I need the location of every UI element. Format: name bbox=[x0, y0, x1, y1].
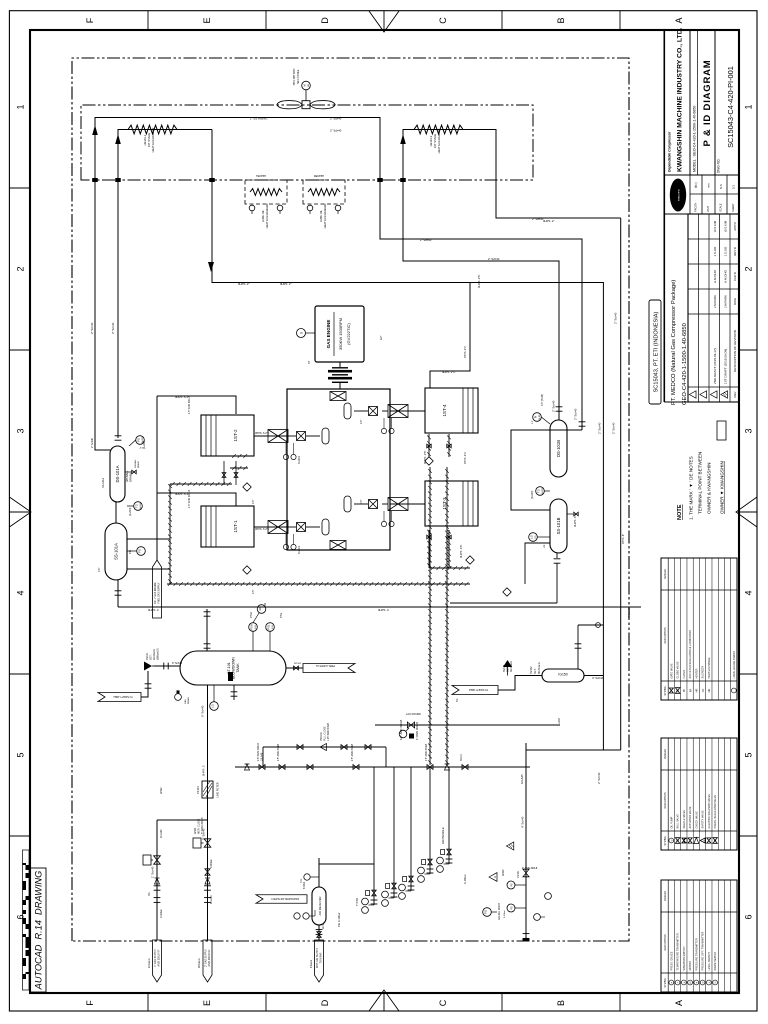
svg-text:OIL PUMP: OIL PUMP bbox=[670, 816, 673, 828]
svg-text:LG: LG bbox=[210, 704, 214, 707]
svg-text:1ST-2: 1ST-2 bbox=[233, 429, 238, 442]
svg-text:2" Sch40: 2" Sch40 bbox=[111, 322, 115, 334]
svg-text:0HPS .6"C: 0HPS .6"C bbox=[459, 545, 463, 558]
svg-text:0HPS .2"C: 0HPS .2"C bbox=[423, 451, 427, 464]
svg-text:(A-204): (A-204) bbox=[129, 507, 132, 516]
project id box bbox=[649, 300, 661, 404]
svg-text:M: M bbox=[690, 981, 692, 983]
cylinder 1ST-1 bbox=[201, 506, 254, 547]
svg-text:SS-101A: SS-101A bbox=[114, 543, 119, 560]
autocad stamp box bbox=[30, 868, 46, 992]
svg-text:2" Sch40: 2" Sch40 bbox=[91, 437, 94, 448]
svg-text:KWANGSHIN AIR SUPPLY: KWANGSHIN AIR SUPPLY bbox=[271, 897, 299, 900]
wire cyl drains top bbox=[223, 461, 225, 485]
svg-text:2.5" ANSI 300LB: 2.5" ANSI 300LB bbox=[351, 743, 354, 761]
svg-text:HE101-2: HE101-2 bbox=[429, 135, 433, 146]
wire bottle link bbox=[115, 502, 117, 523]
svg-text:HEAT EXCHANGE: HEAT EXCHANGE bbox=[708, 657, 711, 678]
cooler boundary dash-dot bbox=[81, 105, 533, 180]
svg-text:mm: mm bbox=[707, 183, 711, 188]
svg-text:A-204: A-204 bbox=[139, 502, 142, 509]
nozzle junction square bbox=[115, 178, 121, 182]
svg-text:0HPS .2"C: 0HPS .2"C bbox=[464, 346, 467, 358]
svg-text:PG: PG bbox=[136, 438, 140, 442]
svg-text:DRAIN: DRAIN bbox=[187, 697, 190, 704]
wire BT relief bbox=[154, 665, 180, 667]
flow arrow bbox=[92, 125, 98, 135]
svg-text:J.S.JIO: J.S.JIO bbox=[723, 246, 727, 256]
svg-text:0.5": 0.5" bbox=[252, 590, 255, 594]
wire psv bypass bbox=[263, 746, 386, 748]
svg-text:0.5": 0.5" bbox=[532, 420, 534, 424]
svg-text:0-60bar: 0-60bar bbox=[210, 859, 213, 868]
wire discharge A to cooler bbox=[95, 118, 582, 451]
DS-101A TG bbox=[134, 502, 143, 511]
svg-text:0-10bar: 0-10bar bbox=[503, 910, 506, 918]
crankcase oil pump end bbox=[330, 392, 346, 401]
svg-text:O: O bbox=[671, 839, 673, 841]
svg-text:DRAIN: DRAIN bbox=[129, 473, 133, 482]
suction bottle SS-101A bbox=[105, 523, 127, 580]
svg-text:SAFETY VALVE: SAFETY VALVE bbox=[702, 810, 705, 828]
wire valve line 299 bbox=[375, 724, 560, 726]
BT level bar bbox=[228, 672, 233, 681]
svg-text:0HPS .2": 0HPS .2" bbox=[238, 282, 249, 286]
svg-text:3: 3 bbox=[744, 428, 754, 433]
svg-text:(GV222TIC): (GV222TIC) bbox=[346, 323, 351, 345]
svg-text:4: 4 bbox=[16, 590, 26, 595]
relief valve PSV101 bbox=[320, 744, 326, 751]
spec break SSB bbox=[554, 562, 561, 564]
coupling bbox=[332, 382, 348, 383]
header flanges bbox=[154, 901, 161, 903]
svg-text:6" Sch40: 6" Sch40 bbox=[201, 705, 205, 717]
flow arrow4 bbox=[400, 134, 406, 144]
svg-text:10LA45: 10LA45 bbox=[261, 752, 264, 761]
wire BT vent bbox=[286, 667, 303, 669]
traced vertical main bbox=[167, 583, 470, 585]
svg-text:TO SAFETY AREA: TO SAFETY AREA bbox=[113, 695, 133, 698]
svg-text:AIR BUNDLE: AIR BUNDLE bbox=[441, 827, 445, 844]
svg-text:PG: PG bbox=[511, 906, 514, 910]
svg-text:10LA45: 10LA45 bbox=[520, 774, 524, 784]
diamond d5 bbox=[503, 588, 511, 596]
svg-text:0HPS .6": 0HPS .6" bbox=[622, 534, 625, 544]
svg-text:1: 1 bbox=[744, 104, 754, 109]
package boundary dash-dot bbox=[72, 58, 629, 941]
crosshead assembly cyl3 bbox=[390, 503, 425, 505]
BT bottom stub bbox=[233, 685, 235, 700]
SS-101B drain bbox=[567, 513, 573, 515]
svg-text:1ST STAGE: 1ST STAGE bbox=[147, 133, 151, 148]
svg-text:HEAT EXCHANGER: HEAT EXCHANGER bbox=[265, 204, 269, 229]
psv bypass ladder bbox=[259, 765, 265, 770]
svg-text:PT. MEDCO (Natural Gas Compres: PT. MEDCO (Natural Gas Compressor Packag… bbox=[671, 280, 677, 405]
relief valve SV102 bbox=[503, 660, 512, 667]
svg-text:LG: LG bbox=[529, 535, 533, 538]
traced stub c1 bbox=[230, 467, 248, 469]
air receiver to regulators bbox=[318, 864, 320, 887]
svg-text:SI: SI bbox=[300, 331, 304, 334]
flow arrow2 bbox=[115, 134, 121, 144]
svg-text:UNIT: UNIT bbox=[706, 206, 710, 212]
heat exchanger HE101-1 bbox=[128, 125, 177, 134]
svg-text:ROOM HEATER: ROOM HEATER bbox=[714, 952, 717, 971]
svg-text:33: 33 bbox=[263, 602, 267, 606]
svg-text:BALL VALVE: BALL VALVE bbox=[677, 814, 680, 829]
svg-text:FR. 1" GAS ENGINE: FR. 1" GAS ENGINE bbox=[154, 582, 157, 604]
svg-text:1" SS RISING: 1" SS RISING bbox=[250, 117, 267, 121]
svg-text:PG: PG bbox=[128, 550, 132, 554]
centering mark top bbox=[9, 497, 31, 527]
revision table bbox=[688, 214, 739, 402]
wire air receiver out bbox=[318, 858, 320, 887]
wire fuel supply bbox=[207, 685, 209, 940]
svg-text:W102: W102 bbox=[502, 869, 505, 876]
svg-text:TO SAFETY AREA: TO SAFETY AREA bbox=[316, 665, 336, 668]
svg-text:J.M.PARK: J.M.PARK bbox=[713, 295, 717, 308]
svg-text:0HPS 2": 0HPS 2" bbox=[280, 282, 291, 286]
projection and scale cells bbox=[689, 175, 691, 214]
flow arrow3 bbox=[208, 262, 214, 272]
svg-text:PRESS. REGULATOR VALVE: PRESS. REGULATOR VALVE bbox=[714, 795, 717, 829]
traced suction header bbox=[169, 484, 171, 584]
svg-text:PS: PS bbox=[511, 883, 514, 887]
svg-text:6" Sch40: 6" Sch40 bbox=[172, 662, 183, 665]
graphic scale ruler bbox=[23, 850, 30, 990]
svg-text:LG: LG bbox=[543, 545, 546, 548]
svg-text:DS-101B: DS-101B bbox=[556, 440, 561, 457]
svg-text:A: A bbox=[493, 876, 497, 878]
wire SS-101B vent bbox=[525, 543, 550, 584]
svg-text:PG 0-10bar: PG 0-10bar bbox=[337, 912, 341, 927]
svg-text:10LA40: 10LA40 bbox=[160, 829, 163, 838]
svg-text:W102: W102 bbox=[160, 787, 163, 794]
svg-text:F: F bbox=[85, 1000, 95, 1006]
svg-text:HEAT EXCHANGER: HEAT EXCHANGER bbox=[151, 128, 155, 153]
svg-text:5" Sch40: 5" Sch40 bbox=[202, 828, 206, 840]
svg-text:HR: HR bbox=[695, 689, 699, 693]
valve on suction header bbox=[154, 856, 161, 864]
lube oil heat exchanger HE105A bbox=[245, 180, 287, 204]
svg-text:5: 5 bbox=[744, 752, 754, 757]
air filter regulator bbox=[304, 874, 310, 880]
svg-text:MOTOR: MOTOR bbox=[689, 961, 692, 970]
legend table valves bbox=[661, 738, 737, 850]
wire psv main bbox=[235, 766, 530, 768]
svg-text:DWG NO.: DWG NO. bbox=[717, 159, 721, 173]
spec break bbox=[556, 410, 563, 412]
svg-text:36.3 bar.G: 36.3 bar.G bbox=[510, 661, 513, 672]
crosshead assembly cyl4 bbox=[390, 410, 425, 412]
discharge bottle DS-101B bbox=[550, 420, 567, 477]
svg-text:3: 3 bbox=[16, 428, 26, 433]
svg-text:NEEDLE VALVE: NEEDLE VALVE bbox=[683, 810, 686, 829]
gas engine bbox=[315, 306, 364, 362]
svg-text:B-2001: B-2001 bbox=[298, 455, 301, 464]
svg-text:4" ANSI 300LB: 4" ANSI 300LB bbox=[522, 867, 538, 870]
svg-text:LA/O: LA/O bbox=[558, 718, 561, 724]
spec break dsb2 bbox=[579, 425, 586, 427]
svg-text:H.M.OHO: H.M.OHO bbox=[723, 269, 727, 282]
traced cyl3 drops bbox=[428, 530, 430, 568]
svg-text:2" Sch40: 2" Sch40 bbox=[330, 129, 342, 133]
svg-text:DESCRIPTION: DESCRIPTION bbox=[664, 934, 667, 951]
svg-text:B-203: B-203 bbox=[542, 487, 544, 494]
svg-text:TEMPERATURE TRANSMITTER: TEMPERATURE TRANSMITTER bbox=[677, 933, 680, 970]
SS-101B LG bbox=[529, 533, 538, 542]
BT drain inst bbox=[210, 702, 219, 711]
svg-text:CHK'D: CHK'D bbox=[733, 272, 737, 281]
svg-text:F: F bbox=[85, 17, 95, 23]
svg-text:1" Sch40: 1" Sch40 bbox=[151, 866, 155, 878]
wire fuel tee bbox=[430, 283, 470, 389]
svg-text:1.5" AND 300LB: 1.5" AND 300LB bbox=[188, 490, 191, 508]
svg-text:REMARK: REMARK bbox=[664, 748, 667, 759]
svg-text:AIR FILTER REGULATOR & LUBRICA: AIR FILTER REGULATOR & LUBRICATOR bbox=[689, 630, 692, 678]
svg-text:PG: PG bbox=[483, 910, 487, 914]
svg-text:TO 8 BAR: TO 8 BAR bbox=[319, 952, 322, 963]
svg-text:DRAIN: DRAIN bbox=[137, 461, 140, 468]
svg-text:PSH: PSH bbox=[249, 612, 253, 618]
warning triangle B bbox=[506, 842, 513, 850]
svg-text:J.M.PARK: J.M.PARK bbox=[723, 295, 727, 308]
diamond d2 bbox=[243, 566, 251, 574]
psv rungs bbox=[262, 747, 264, 767]
svg-text:ANSI 300LB RF: ANSI 300LB RF bbox=[157, 949, 160, 967]
svg-text:HE105B: HE105B bbox=[314, 174, 324, 178]
diamond d4 bbox=[466, 556, 474, 564]
DS-101B PG bbox=[533, 413, 542, 422]
svg-text:ST: ST bbox=[308, 360, 311, 364]
svg-text:LA/O ROUND: LA/O ROUND bbox=[406, 713, 421, 716]
wire silencer relief bbox=[498, 676, 542, 691]
svg-text:(A-203): (A-203) bbox=[143, 440, 146, 449]
svg-text:WP102: WP102 bbox=[294, 663, 302, 665]
svg-text:2" Sch40: 2" Sch40 bbox=[574, 408, 578, 420]
svg-text:1: 1 bbox=[16, 104, 26, 109]
wire SSB left bbox=[450, 602, 557, 604]
svg-text:0-10bar: 0-10bar bbox=[463, 874, 467, 884]
safety flag silencer bbox=[452, 686, 498, 695]
wire long oil line bbox=[118, 606, 641, 608]
wire IG150 riser bbox=[577, 625, 579, 669]
crankcase gauge pair a bbox=[283, 454, 288, 459]
svg-text:SHEET: SHEET bbox=[731, 203, 735, 212]
svg-text:SV101: SV101 bbox=[461, 753, 463, 761]
svg-text:SYMBOL: SYMBOL bbox=[664, 835, 667, 846]
svg-text:H.M.OHO: H.M.OHO bbox=[713, 269, 717, 282]
svg-text:8 bar.G: 8 bar.G bbox=[310, 960, 313, 968]
svg-text:0HPS .2"C: 0HPS .2"C bbox=[442, 370, 455, 374]
wire cooler HE2 loop bbox=[403, 130, 621, 421]
svg-text:CHECK VALVE: CHECK VALVE bbox=[695, 811, 698, 828]
company logo ellipse bbox=[670, 179, 686, 212]
wire supply crosslink bbox=[157, 819, 208, 821]
crankcase aux end bbox=[330, 541, 346, 550]
svg-text:SS-101B: SS-101B bbox=[556, 517, 561, 534]
nozzle junction square bbox=[400, 178, 406, 182]
svg-text:D: D bbox=[320, 999, 330, 1006]
svg-text:NOTE: NOTE bbox=[677, 504, 683, 520]
svg-text:GATE VALVE: GATE VALVE bbox=[670, 663, 673, 678]
svg-text:2" Sch40: 2" Sch40 bbox=[330, 117, 342, 121]
svg-text:0HPS .2": 0HPS .2" bbox=[543, 219, 554, 223]
svg-text:0HPS .S 2"C: 0HPS .S 2"C bbox=[255, 432, 270, 435]
lube oil heat exchanger HE105B bbox=[303, 180, 345, 204]
svg-text:PROJ'N: PROJ'N bbox=[694, 203, 698, 212]
air line valve bbox=[317, 932, 321, 938]
wire SS-101A inlet bbox=[117, 580, 119, 607]
svg-text:2" Sch40: 2" Sch40 bbox=[532, 217, 544, 221]
svg-text:1ST STAGE: 1ST STAGE bbox=[433, 134, 437, 149]
svg-text:Dependable Compressor: Dependable Compressor bbox=[668, 131, 672, 172]
diamond d3 bbox=[425, 457, 433, 465]
svg-text:HEAT EXCHANGER: HEAT EXCHANGER bbox=[437, 129, 441, 154]
svg-text:GAS ENGINE: GAS ENGINE bbox=[326, 320, 331, 349]
svg-text:LUBE OIL: LUBE OIL bbox=[261, 209, 265, 222]
flag gas supply 1 bbox=[153, 940, 162, 982]
svg-text:0HPS .S 2": 0HPS .S 2" bbox=[175, 492, 189, 496]
svg-text:2" Sch40: 2" Sch40 bbox=[598, 422, 602, 434]
svg-text:36.3 bar.G: 36.3 bar.G bbox=[538, 662, 541, 674]
svg-text:2.5" ANSI 300LB: 2.5" ANSI 300LB bbox=[425, 743, 428, 761]
flag gas supply 2 bbox=[203, 940, 212, 982]
crosshead assembly cyl2 bbox=[254, 435, 287, 437]
wire header drop cyl2 bbox=[157, 396, 236, 414]
svg-text:0HPS .3: 0HPS .3 bbox=[202, 765, 206, 776]
crankcase gauge pair b bbox=[283, 544, 288, 549]
warning triangle A bbox=[489, 873, 497, 882]
traced stub c2 bbox=[230, 455, 248, 457]
svg-text:ANSI 300LB RF: ANSI 300LB RF bbox=[208, 949, 211, 967]
svg-text:TEFC 8 POLE: TEFC 8 POLE bbox=[298, 69, 300, 84]
svg-text:W.S.KIM: W.S.KIM bbox=[723, 220, 727, 232]
svg-text:AIR RECEIVER: AIR RECEIVER bbox=[318, 896, 322, 915]
svg-text:PG: PG bbox=[148, 892, 151, 896]
svg-text:4" Sch40: 4" Sch40 bbox=[521, 816, 525, 828]
svg-text:REMARK: REMARK bbox=[664, 568, 667, 579]
svg-text:⊕◁: ⊕◁ bbox=[694, 182, 698, 188]
nozzle junction square bbox=[209, 178, 215, 182]
svg-text:350KW 1500RPM: 350KW 1500RPM bbox=[338, 318, 343, 350]
svg-text:REV: REV bbox=[733, 391, 737, 397]
svg-text:PRESSURE DIFF. TRANSMITTER: PRESSURE DIFF. TRANSMITTER bbox=[702, 931, 705, 970]
svg-text:4" Sch40: 4" Sch40 bbox=[592, 676, 604, 680]
nozzle junction square bbox=[92, 178, 98, 182]
wire suction run bbox=[155, 568, 170, 570]
svg-text:REV'D: REV'D bbox=[733, 247, 737, 256]
heat exchanger HE101-2 bbox=[414, 125, 463, 134]
svg-text:2: 2 bbox=[744, 266, 754, 271]
air PG pair bbox=[294, 913, 300, 919]
svg-text:C: C bbox=[438, 17, 448, 24]
svg-text:SILENCER: SILENCER bbox=[702, 666, 705, 679]
svg-text:J.S.JIO: J.S.JIO bbox=[713, 246, 717, 256]
traced suction drop bbox=[170, 483, 232, 485]
svg-text:ELECTRIC SOLENOID VALVE: ELECTRIC SOLENOID VALVE bbox=[708, 794, 711, 829]
flag air supply bbox=[315, 940, 324, 982]
legend table equipment bbox=[661, 558, 737, 700]
svg-text:1ST-1: 1ST-1 bbox=[233, 520, 238, 533]
centering mark right bbox=[369, 11, 399, 32]
svg-text:1/2": 1/2" bbox=[380, 336, 383, 340]
svg-text:GLOBE VALVE: GLOBE VALVE bbox=[677, 661, 680, 678]
wire blowdown header bbox=[525, 743, 527, 940]
svg-text:HEATER: HEATER bbox=[695, 668, 698, 678]
blowdown tank BT-101 bbox=[180, 651, 286, 685]
svg-text:KWANGSHIN MACHINE INDUSTRY CO.: KWANGSHIN MACHINE INDUSTRY CO., LTD. bbox=[677, 27, 684, 172]
svg-text:DWG: DWG bbox=[733, 297, 737, 305]
svg-text:0.5": 0.5" bbox=[360, 420, 363, 424]
svg-text:2.5" ANSI 300LB: 2.5" ANSI 300LB bbox=[277, 743, 280, 761]
crankcase frame bbox=[287, 389, 390, 550]
svg-text:SV102: SV102 bbox=[530, 666, 533, 674]
svg-text:(368 psi.G): (368 psi.G) bbox=[157, 648, 160, 660]
svg-text:PSL: PSL bbox=[279, 612, 283, 618]
title block frame bbox=[663, 30, 665, 402]
svg-text:SET :: SET : bbox=[534, 667, 537, 674]
svg-text:VIBRATION SWITCH: VIBRATION SWITCH bbox=[683, 946, 686, 970]
nozzle junction square bbox=[377, 178, 383, 182]
svg-text:3/8 BALL: 3/8 BALL bbox=[134, 459, 137, 468]
wire manifold 620 bbox=[620, 218, 622, 750]
svg-text:0-10bar: 0-10bar bbox=[160, 909, 163, 918]
legend table instruments bbox=[661, 880, 737, 992]
svg-text:M: M bbox=[302, 84, 306, 86]
svg-text:B: B bbox=[556, 17, 566, 23]
svg-text:APP'D: APP'D bbox=[733, 222, 737, 230]
blowdown PS gauge bbox=[507, 881, 515, 889]
svg-text:TG: TG bbox=[134, 504, 138, 508]
engine speed instrument bbox=[297, 329, 306, 338]
svg-text:26 bar.G: 26 bar.G bbox=[198, 958, 201, 968]
svg-text:TERMINAL POINT BETWEEN: TERMINAL POINT BETWEEN bbox=[698, 452, 703, 514]
svg-text:KWANGSHIN: KWANGSHIN bbox=[678, 188, 681, 201]
centering mark left bbox=[369, 990, 399, 1011]
header check valve bbox=[205, 878, 210, 884]
svg-text:PSL: PSL bbox=[266, 624, 270, 629]
svg-text:RF: RF bbox=[688, 688, 692, 692]
svg-text:PRESS. GAUGE: PRESS. GAUGE bbox=[670, 951, 673, 970]
safety flag BT vent bbox=[303, 664, 355, 673]
blowdown exit flange bbox=[523, 937, 530, 939]
svg-text:2" Sch40: 2" Sch40 bbox=[90, 322, 94, 334]
diamond d1 bbox=[243, 483, 251, 491]
svg-text:6: 6 bbox=[744, 914, 754, 919]
svg-text:B-96: B-96 bbox=[539, 414, 541, 419]
svg-text:AUTOCAD R.14 DRAWING: AUTOCAD R.14 DRAWING bbox=[34, 871, 44, 991]
svg-text:OWNER ▼ KWANGSHIN: OWNER ▼ KWANGSHIN bbox=[720, 461, 725, 514]
crankcase gauge pair d bbox=[381, 521, 386, 526]
svg-text:1/1: 1/1 bbox=[732, 185, 736, 189]
svg-text:FUEL GAS SUPPLY: FUEL GAS SUPPLY bbox=[157, 582, 160, 603]
BT gauges bbox=[249, 623, 258, 632]
svg-text:E: E bbox=[202, 1000, 212, 1006]
svg-text:CV101: CV101 bbox=[517, 870, 520, 878]
svg-text:LEVEL SWITCH: LEVEL SWITCH bbox=[708, 952, 711, 970]
svg-text:0.5": 0.5" bbox=[98, 568, 101, 572]
traced stub d bbox=[430, 567, 470, 569]
wire air supply bbox=[318, 925, 320, 940]
svg-text:SYMBOL: SYMBOL bbox=[664, 685, 667, 696]
pressure regulator sets bbox=[373, 767, 375, 905]
svg-text:380V 3PH 60HZ: 380V 3PH 60HZ bbox=[294, 68, 296, 85]
svg-text:B-2001: B-2001 bbox=[298, 545, 301, 554]
svg-text:W.S.KIM: W.S.KIM bbox=[713, 220, 717, 232]
traced discharge b bbox=[446, 467, 448, 765]
svg-text:HE105A: HE105A bbox=[256, 174, 266, 178]
